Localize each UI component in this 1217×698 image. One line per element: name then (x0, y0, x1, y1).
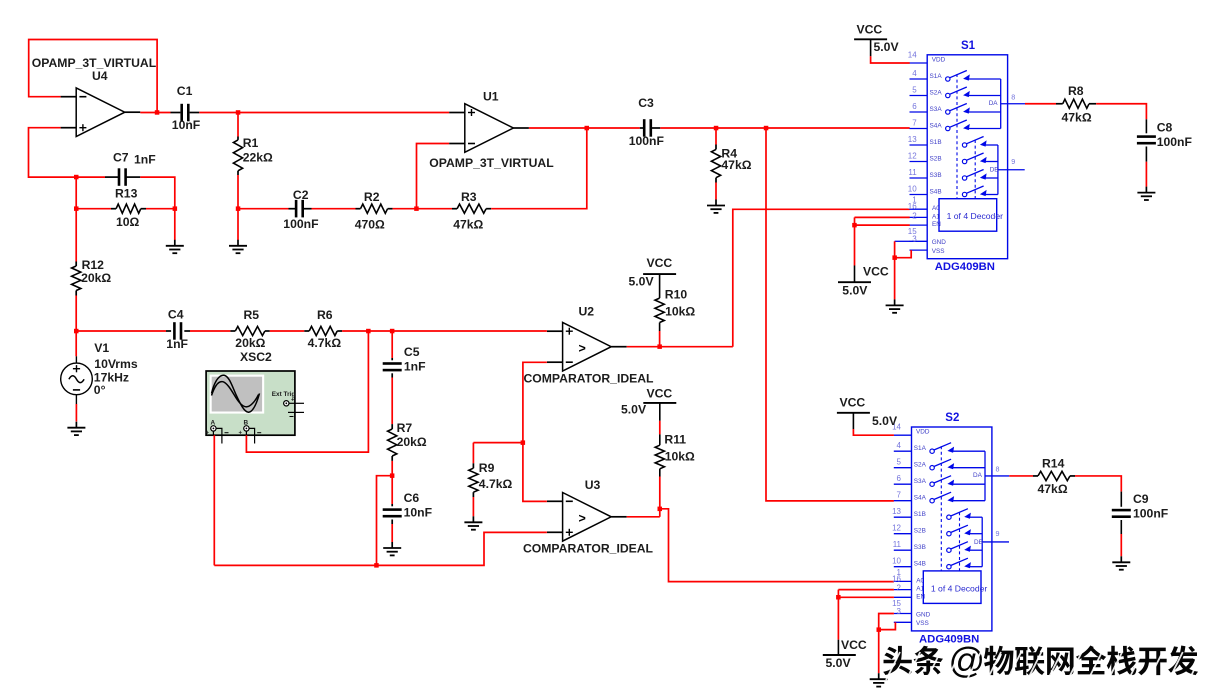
svg-text:COMPARATOR_IDEAL: COMPARATOR_IDEAL (524, 372, 655, 386)
svg-text:47kΩ: 47kΩ (1038, 482, 1068, 496)
decoder dashed control lines of S1 (956, 74, 958, 199)
svg-text:R12: R12 (82, 258, 105, 272)
wire U2 output to R10 node (627, 346, 733, 348)
resistor R8 47k (1025, 103, 1056, 105)
pin 13 S1B of S2 (894, 516, 912, 518)
pin 10 S4B of S1 (910, 194, 928, 196)
svg-text:>: > (579, 512, 586, 526)
node U1 output junction (585, 126, 590, 131)
svg-text:5.0V: 5.0V (874, 40, 900, 54)
svg-text:S2B: S2B (914, 528, 926, 535)
svg-text:10Vrms: 10Vrms (94, 357, 138, 371)
svg-text:9: 9 (1011, 157, 1015, 166)
capacitor C6 10nF (391, 476, 393, 504)
svg-text:>: > (579, 342, 586, 356)
svg-text:100nF: 100nF (629, 134, 664, 148)
pin 3 VSS of S2 (894, 621, 912, 623)
wire S2 A1 to VCC (838, 589, 894, 591)
wire U2 output up to S1 A0 (733, 209, 910, 346)
svg-text:20kΩ: 20kΩ (81, 271, 111, 285)
svg-text:47kΩ: 47kΩ (1062, 111, 1092, 125)
pin 11 S3B of S1 (910, 177, 928, 179)
svg-text:C1: C1 (177, 84, 193, 98)
svg-text:S3B: S3B (914, 544, 926, 551)
VCC rail above R10 (643, 273, 676, 275)
svg-text:20kΩ: 20kΩ (397, 435, 427, 449)
ground below C8 (1145, 187, 1147, 193)
svg-text:U4: U4 (92, 69, 108, 83)
svg-text:S4A: S4A (914, 495, 927, 502)
wire R9 to ground (472, 497, 474, 516)
comparator U2 (563, 322, 612, 371)
ground below S2 (878, 673, 880, 679)
svg-text:ADG409BN: ADG409BN (935, 261, 995, 273)
capacitor C9 100nF (1120, 492, 1122, 507)
wire R8 to C8 (1096, 104, 1146, 120)
svg-text:VCC: VCC (647, 387, 673, 401)
pin 2 EN of S1 (910, 224, 928, 226)
svg-text:C6: C6 (404, 491, 420, 505)
node R1 bottom junction (236, 206, 241, 211)
oscilloscope XSC2 (206, 371, 295, 435)
svg-text:C8: C8 (1157, 121, 1173, 135)
wire C3 to S1 S4A long wire (660, 127, 909, 129)
svg-text:5.0V: 5.0V (629, 275, 655, 289)
svg-text:C9: C9 (1133, 492, 1149, 506)
svg-text:10kΩ: 10kΩ (665, 450, 695, 464)
svg-text:1nF: 1nF (134, 153, 156, 167)
svg-text:S3A: S3A (914, 478, 927, 485)
wire R6 to U2 noninverting input (342, 330, 547, 332)
svg-text:COMPARATOR_IDEAL: COMPARATOR_IDEAL (523, 542, 654, 556)
pin 11 S3B of S2 (894, 549, 912, 551)
node scope B junction (366, 329, 371, 334)
wire S1 VSS to ground (895, 250, 912, 258)
banner distress white slashes (886, 652, 1203, 680)
pin 12 S2B of S2 (894, 533, 912, 535)
ground below R1 (237, 240, 239, 246)
source V1 10Vrms 17kHz sine (75, 331, 77, 356)
node R2 R3 U1- junction (414, 206, 419, 211)
VCC rail above R11 (643, 402, 676, 404)
wire U3 output to R11 vertical (627, 516, 660, 518)
switch contacts group B of S2 (947, 515, 951, 519)
svg-text:GND: GND (916, 611, 931, 618)
svg-text:XSC2: XSC2 (240, 350, 272, 364)
svg-text:S3A: S3A (930, 106, 943, 113)
svg-text:EN: EN (932, 221, 941, 228)
wire C8 to ground (1145, 162, 1147, 187)
svg-text:1 of 4 Decoder: 1 of 4 Decoder (931, 583, 988, 593)
capacitor C5 1nF (391, 331, 393, 358)
multiplexer S2 ADG409BN box (912, 427, 992, 631)
wire VCC to S2 VDD (852, 413, 854, 429)
wire R11 down to U3 output (659, 477, 661, 517)
node R4 top junction (714, 126, 719, 131)
svg-text:5.0V: 5.0V (826, 656, 852, 670)
node R13 right junction (173, 206, 178, 211)
svg-text:R10: R10 (665, 288, 688, 302)
svg-text:S2A: S2A (914, 462, 927, 469)
pin 5 S2A of S2 (894, 467, 912, 469)
node R1 top junction (236, 110, 241, 115)
pin 5 S2A of S1 (910, 95, 928, 97)
pin 13 S1B of S1 (910, 144, 928, 146)
svg-text:R6: R6 (317, 308, 333, 322)
svg-text:S3B: S3B (930, 172, 942, 179)
node R9 tap junction on U2- vertical (521, 440, 526, 445)
ground below V1 (75, 422, 77, 428)
svg-text:5: 5 (912, 86, 917, 95)
node S2 GND VSS junction (877, 627, 882, 632)
svg-text:VDD: VDD (932, 57, 946, 64)
wire U2 inverting input chain down to U3 inverting input (523, 362, 547, 501)
wire S2 GND to ground (879, 614, 894, 630)
switch bus A and DA output of S2 (984, 451, 986, 501)
wire VCC to S1 VDD (870, 39, 872, 56)
svg-text:5: 5 (897, 458, 902, 467)
comparator U3 (563, 493, 612, 542)
svg-text:OPAMP_3T_VIRTUAL: OPAMP_3T_VIRTUAL (32, 56, 157, 70)
wire U1 output to C3 (529, 127, 640, 129)
svg-text:DA: DA (989, 100, 999, 107)
svg-text:C4: C4 (168, 308, 184, 322)
resistor R2 470ohm (356, 208, 361, 210)
svg-text:5.0V: 5.0V (621, 403, 647, 417)
svg-text:3: 3 (912, 235, 917, 244)
svg-text:8: 8 (996, 464, 1000, 473)
svg-text:VDD: VDD (916, 429, 930, 436)
wire bottom row scope A to U3 + input (214, 532, 547, 565)
capacitor C7 1nF (105, 176, 119, 178)
capacitor C8 100nF (1145, 119, 1147, 133)
resistor R14 47k (1009, 475, 1033, 477)
resistor R4 47k (715, 128, 717, 145)
pin 2 EN of S2 (894, 596, 912, 598)
svg-text:VCC: VCC (841, 638, 867, 652)
pin 14 VDD of S1 (910, 62, 928, 64)
svg-text:S2B: S2B (930, 155, 942, 162)
node R11 branch junction (658, 507, 663, 512)
svg-text:R14: R14 (1042, 457, 1065, 471)
multiplexer S1 ADG409BN box (927, 55, 1007, 259)
wire R4 to ground (715, 183, 717, 200)
wire R10 to U2 output (659, 331, 661, 347)
svg-text:1nF: 1nF (404, 360, 426, 374)
resistor R12 20k (75, 209, 77, 262)
svg-text:R8: R8 (1068, 84, 1084, 98)
svg-text:R13: R13 (115, 187, 138, 201)
svg-text:11: 11 (908, 168, 917, 177)
pin 3 VSS of S1 (910, 249, 928, 251)
svg-text:470Ω: 470Ω (355, 218, 385, 232)
svg-text:V1: V1 (94, 341, 109, 355)
svg-text:100nF: 100nF (1133, 507, 1168, 521)
svg-text:S4B: S4B (914, 561, 926, 568)
svg-text:100nF: 100nF (1157, 135, 1192, 149)
svg-text:2: 2 (912, 211, 917, 220)
node S2 A1 EN junction (836, 595, 841, 600)
resistor R9 4.7k (473, 442, 523, 444)
svg-text:100nF: 100nF (283, 217, 318, 231)
op-amp U1 (465, 104, 514, 153)
svg-text:U1: U1 (483, 90, 499, 104)
svg-text:VSS: VSS (916, 620, 929, 627)
1 of 4 Decoder box of S1 (939, 199, 997, 232)
node bottom row junction (374, 563, 379, 568)
svg-text:S2: S2 (945, 412, 959, 424)
wire S2 VSS to ground (879, 622, 896, 629)
wire V1 to ground (75, 395, 77, 404)
node U2 output R10 junction (657, 344, 662, 349)
svg-text:VCC: VCC (857, 23, 883, 37)
resistor R5 20k (230, 330, 235, 332)
wire R12 bottom to main row (75, 296, 77, 332)
node S1 A1 EN junction (852, 223, 857, 228)
capacitor C4 1nF (76, 330, 166, 332)
pin 7 S4A of S1 (910, 128, 928, 130)
svg-text:10Ω: 10Ω (116, 215, 140, 229)
wire C7 right to R13 right node (140, 177, 175, 209)
pin 7 S4A of S2 (894, 500, 912, 502)
svg-text:S1B: S1B (930, 139, 942, 146)
svg-text:8: 8 (1011, 92, 1015, 101)
node C5 branch junction (390, 329, 395, 334)
svg-text:6: 6 (912, 102, 917, 111)
wire C2 to R2 (312, 208, 356, 210)
ground below R4 (715, 200, 717, 206)
wire junction up to U1 inverting input (417, 144, 450, 209)
svg-text:10: 10 (892, 557, 901, 566)
pin 1 A0 of S1 (910, 208, 928, 210)
VCC rail top of S2 (837, 412, 870, 414)
svg-text:R2: R2 (364, 190, 380, 204)
wire R2 to junction (393, 208, 417, 210)
svg-text:14: 14 (908, 51, 917, 60)
decoder dashed control lines of S2 (940, 446, 942, 571)
wire U4 feedback loop output to inverting input (29, 40, 157, 113)
svg-text:R11: R11 (664, 433, 686, 447)
node S2 branch junction on long wire (764, 126, 769, 131)
svg-text:C2: C2 (293, 188, 309, 202)
svg-text:VCC: VCC (840, 396, 866, 410)
svg-text:GND: GND (932, 239, 947, 246)
ground below S1 (894, 299, 896, 305)
svg-text:DB: DB (974, 539, 983, 546)
svg-text:S4B: S4B (930, 188, 942, 195)
svg-text:+: + (206, 431, 210, 437)
1 of 4 Decoder box of S2 (923, 571, 981, 604)
wire S1 A1 to VCC (855, 216, 910, 218)
svg-text:4: 4 (912, 69, 917, 78)
svg-text:+: + (239, 431, 243, 437)
switch contacts group A of S1 (946, 77, 950, 81)
wire scope channel B to R6 output node (245, 431, 247, 435)
svg-text:OPAMP_3T_VIRTUAL: OPAMP_3T_VIRTUAL (429, 156, 554, 170)
svg-text:S2A: S2A (930, 89, 943, 96)
resistor R3 47k (417, 208, 453, 210)
svg-text:S4A: S4A (930, 122, 943, 129)
svg-text:10nF: 10nF (404, 506, 432, 520)
svg-text:6: 6 (897, 474, 902, 483)
wire scope channel A down to U3 row (212, 431, 214, 435)
pin 6 S3A of S2 (894, 483, 912, 485)
pin 16 A1 of S2 (894, 589, 912, 591)
wire C4 to R5 (190, 330, 230, 332)
pin 10 S4B of S2 (894, 566, 912, 568)
wire U4 + input loop to C7/R13 node (29, 128, 106, 177)
svg-text:5.0V: 5.0V (842, 284, 868, 298)
switch bus B and DB output of S1 (997, 145, 999, 195)
svg-text:20kΩ: 20kΩ (235, 336, 265, 350)
wire R14 to C9 (1075, 476, 1121, 492)
VCC rail bottom of S2 (837, 640, 839, 655)
wire R5 to R6 (270, 330, 305, 332)
svg-text:0°: 0° (94, 383, 106, 397)
svg-text:4.7kΩ: 4.7kΩ (308, 336, 342, 350)
svg-text:S1A: S1A (914, 445, 927, 452)
wire R3 to U1 output node (491, 128, 587, 209)
wire U4 output to C1 (140, 112, 170, 114)
svg-text:S1B: S1B (914, 511, 926, 518)
svg-text:10kΩ: 10kΩ (665, 305, 695, 319)
svg-text:47kΩ: 47kΩ (453, 218, 483, 232)
wire R13 node down to ground (174, 209, 176, 240)
svg-text:C7: C7 (113, 151, 129, 165)
pin 6 S3A of S1 (910, 111, 928, 113)
svg-text:16: 16 (908, 202, 917, 211)
node R13 left junction (74, 206, 79, 211)
svg-text:VCC: VCC (863, 265, 889, 279)
wire C1 to U1 noninverting input (199, 112, 449, 114)
svg-text:5.0V: 5.0V (872, 414, 898, 428)
wire R7 bottom to C6 node (391, 461, 393, 476)
pin 4 S1A of S2 (894, 450, 912, 452)
svg-text:C5: C5 (404, 345, 420, 359)
svg-text:4: 4 (897, 441, 902, 450)
svg-text:13: 13 (892, 507, 901, 516)
svg-text:DB: DB (990, 167, 999, 174)
wire S1 GND to ground (895, 240, 910, 242)
resistor R11 10k (659, 403, 661, 421)
ground below R13 (174, 240, 176, 246)
svg-text:1 of 4 Decoder: 1 of 4 Decoder (947, 211, 1004, 221)
node U4 output junction (155, 110, 160, 115)
pin 1 A0 of S2 (894, 580, 912, 582)
svg-text:VCC: VCC (647, 256, 673, 270)
pin 14 VDD of S2 (894, 434, 912, 436)
pin 15 GND of S1 (910, 240, 928, 242)
wire long vertical down to S2 S4A input (766, 128, 894, 501)
node S1 GND VSS junction (892, 255, 897, 260)
wire C6 to ground (391, 524, 393, 542)
svg-text:DA: DA (973, 472, 983, 479)
svg-text:U2: U2 (579, 305, 595, 319)
ground below C9 (1120, 556, 1122, 562)
svg-text:10: 10 (908, 185, 917, 194)
wire C6 node left down to bottom row (377, 476, 393, 566)
resistor R10 10k (659, 274, 661, 298)
pin 16 A1 of S1 (910, 216, 928, 218)
svg-text:S1: S1 (961, 40, 976, 52)
pin 12 S2B of S1 (910, 161, 928, 163)
ground below R9 (472, 516, 474, 522)
capacitor C3 100nF (640, 127, 644, 129)
svg-text:7: 7 (897, 491, 902, 500)
svg-text:2: 2 (897, 584, 902, 593)
svg-text:EN: EN (916, 593, 925, 600)
resistor R13 10ohm (76, 208, 111, 210)
wire C5 to R7 (391, 378, 393, 425)
svg-text:10nF: 10nF (172, 118, 200, 132)
ground below C6 (391, 542, 393, 548)
svg-text:R7: R7 (397, 421, 413, 435)
scope screen sine traces (212, 375, 260, 412)
svg-text:R3: R3 (461, 190, 477, 204)
VCC rail top of S1 (854, 38, 887, 40)
capacitor C1 10nF (171, 112, 181, 114)
node R7 C6 junction (390, 473, 395, 478)
resistor R7 20k (391, 424, 393, 429)
resistor R6 4.7k (304, 330, 309, 332)
wire S1 EN to VCC (855, 224, 910, 226)
svg-text:@: @ (949, 640, 986, 681)
wire R13 to right node (146, 208, 175, 210)
svg-text:9: 9 (996, 529, 1000, 538)
pin 15 GND of S2 (894, 613, 912, 615)
svg-text:U3: U3 (585, 478, 601, 492)
svg-text:13: 13 (908, 135, 917, 144)
svg-text:S1A: S1A (930, 73, 943, 80)
svg-text:R5: R5 (244, 308, 260, 322)
svg-text:7: 7 (912, 119, 917, 128)
svg-text:22kΩ: 22kΩ (243, 151, 273, 165)
svg-text:+: + (291, 398, 295, 404)
wire R1 bottom to C2 row and ground (237, 175, 239, 240)
wire S2 EN to VCC (838, 596, 894, 598)
svg-text:R9: R9 (479, 461, 495, 475)
pin 4 S1A of S1 (910, 78, 928, 80)
svg-text:C3: C3 (638, 96, 654, 110)
svg-text:12: 12 (892, 524, 901, 533)
watermark banner text: toutiao @wulianwang quanzhan kaifa (883, 640, 1198, 681)
svg-text:3: 3 (897, 607, 902, 616)
svg-text:47kΩ: 47kΩ (721, 158, 751, 172)
switch contacts group A of S2 (930, 449, 934, 453)
svg-text:16: 16 (892, 574, 901, 583)
op-amp U4 (76, 88, 125, 137)
wire branch to S2 A0 (660, 509, 894, 582)
wire left vertical C7 node to R13 row (75, 177, 77, 209)
svg-text:VSS: VSS (932, 248, 945, 255)
svg-text:1nF: 1nF (166, 337, 188, 351)
svg-text:11: 11 (893, 540, 902, 549)
switch contacts group B of S1 (962, 143, 966, 147)
capacitor C2 100nF (238, 208, 289, 210)
resistor R1 22k (237, 113, 239, 137)
svg-text:12: 12 (908, 152, 917, 161)
svg-text:4.7kΩ: 4.7kΩ (479, 477, 513, 491)
switch bus A and DA output of S1 (1000, 79, 1002, 129)
node C7 row left junction (74, 175, 79, 180)
wire C9 to ground (1120, 534, 1122, 556)
svg-text:R1: R1 (243, 136, 259, 150)
node V1 R12 C4 junction (74, 329, 79, 334)
switch bus B and DB output of S2 (981, 517, 983, 567)
VCC rail bottom left of S1 (854, 266, 856, 283)
